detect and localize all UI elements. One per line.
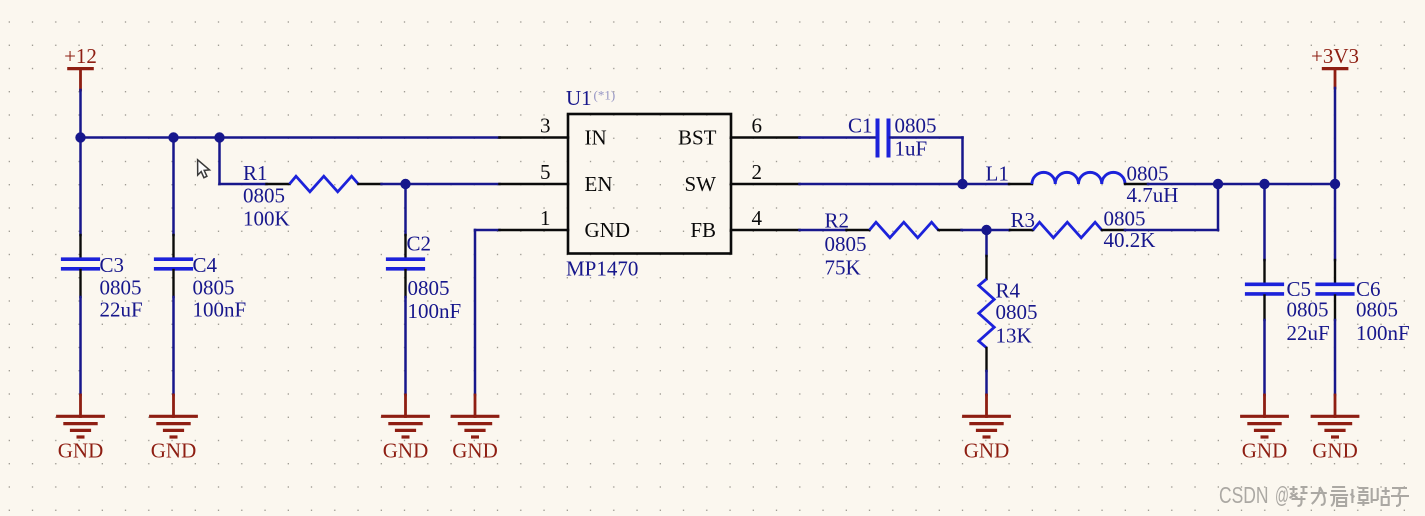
wire C5 column upper: [1263, 184, 1266, 260]
svg-text:0805: 0805: [895, 114, 937, 138]
svg-text:0805: 0805: [243, 184, 285, 208]
svg-text:U1: U1: [566, 86, 592, 110]
inductor L1 pin left: [1009, 183, 1032, 185]
wire C2 column upper: [404, 184, 407, 235]
label C6 footprint 0805: [1356, 298, 1398, 322]
power +12 net label: [64, 44, 97, 68]
junction at +12/C3: [75, 132, 85, 142]
power +3V3 bar symbol: [1322, 69, 1349, 88]
ground GND under C6: [1311, 395, 1360, 463]
capacitor C5 pin lower: [1263, 296, 1265, 321]
capacitor C2 pin upper: [404, 235, 406, 258]
ground GND under C4: [149, 395, 198, 463]
wire R1 to EN pin: [382, 183, 500, 186]
svg-text:40.2K: 40.2K: [1104, 228, 1156, 252]
pin 4 number: [752, 206, 763, 230]
svg-text:0805: 0805: [1356, 298, 1398, 322]
pin 4 FB: [731, 229, 800, 232]
ground GND under C2: [381, 395, 430, 463]
wire +3V3 stub down to rail: [1334, 88, 1337, 184]
resistor R2 pin right: [939, 229, 962, 231]
svg-text:0805: 0805: [408, 276, 450, 300]
label C3 value 22uF: [100, 298, 143, 322]
pin name IN: [585, 126, 607, 150]
wire FB pin to R2: [800, 229, 847, 232]
svg-text:2: 2: [752, 160, 763, 184]
resistor R4 pin top: [985, 256, 987, 279]
resistor R3 pin left: [1010, 229, 1033, 231]
pin 5 EN: [500, 183, 569, 186]
svg-text:BST: BST: [678, 126, 717, 150]
svg-text:75K: 75K: [825, 256, 861, 280]
svg-text:100nF: 100nF: [193, 298, 247, 322]
pin 2 number: [752, 160, 763, 184]
capacitor C6 pin lower: [1334, 296, 1336, 321]
pin 1 number: [540, 206, 551, 230]
wire SW node to L1: [963, 183, 1010, 186]
label L1 designator: [986, 162, 1009, 186]
pin 6 number: [752, 114, 763, 138]
label U1 comment MP1470: [566, 257, 638, 281]
wire SW pin to SW node: [800, 183, 963, 186]
svg-text:0805: 0805: [996, 300, 1038, 324]
capacitor C4: [154, 259, 193, 269]
svg-text:GND: GND: [383, 439, 429, 463]
op-amp U1 MP1470 body: [568, 114, 731, 254]
svg-text:5: 5: [540, 160, 551, 184]
inductor L1: [1032, 172, 1125, 184]
svg-text:+3V3: +3V3: [1311, 44, 1359, 68]
svg-text:L1: L1: [986, 162, 1009, 186]
power +3V3 net label: [1311, 44, 1359, 68]
capacitor C3 pin upper: [79, 235, 81, 258]
svg-text:R4: R4: [996, 279, 1021, 303]
capacitor C4 pin upper: [172, 235, 174, 258]
svg-text:0805: 0805: [825, 232, 867, 256]
svg-text:C4: C4: [193, 253, 218, 277]
label C4 footprint 0805: [193, 276, 235, 300]
svg-text:100nF: 100nF: [408, 299, 462, 323]
pin 1 GND: [500, 229, 569, 232]
label R3 value 40.2K: [1104, 228, 1156, 252]
label R4 footprint 0805: [996, 300, 1038, 324]
label C5 designator: [1287, 277, 1312, 301]
label R2 footprint 0805: [825, 232, 867, 256]
svg-text:CSDN: CSDN: [1219, 482, 1269, 508]
junction at C4: [168, 132, 178, 142]
svg-text:+12: +12: [64, 44, 97, 68]
label R2 value 75K: [825, 256, 861, 280]
wire R1 branch drop: [220, 138, 267, 185]
resistor R1 pin right: [359, 183, 382, 185]
label C6 value 100nF: [1356, 321, 1410, 345]
svg-text:EN: EN: [585, 172, 613, 196]
ground GND under C3: [56, 395, 105, 463]
resistor R1 pin left: [267, 183, 290, 185]
label C5 value 22uF: [1287, 321, 1330, 345]
label C2 footprint 0805: [408, 276, 450, 300]
label R4 designator: [996, 279, 1021, 303]
wire R3 to output rail: [1125, 184, 1218, 230]
label U1 annotation (*1): [594, 88, 616, 103]
pin 5 number: [540, 160, 551, 184]
junction at C5: [1259, 179, 1269, 189]
label C6 designator: [1356, 277, 1381, 301]
svg-text:GND: GND: [452, 439, 498, 463]
label R1 footprint 0805: [243, 184, 285, 208]
wire C1 to SW node: [890, 138, 963, 185]
wire L1 to output rail: [1148, 183, 1335, 186]
svg-text:4.7uH: 4.7uH: [1127, 183, 1179, 207]
label R1 designator: [243, 161, 268, 185]
svg-text:R1: R1: [243, 161, 268, 185]
pin name FB: [690, 218, 716, 242]
svg-text:0805: 0805: [1127, 162, 1169, 186]
wire R2 to FB node: [962, 229, 987, 232]
label R4 value 13K: [996, 324, 1032, 348]
pin 3 IN: [500, 136, 569, 139]
svg-text:IN: IN: [585, 126, 607, 150]
svg-text:100nF: 100nF: [1356, 321, 1410, 345]
junction at C6/+3V3: [1330, 179, 1340, 189]
capacitor C6 pin upper: [1334, 260, 1336, 283]
svg-text:6: 6: [752, 114, 763, 138]
resistor R3: [1033, 222, 1102, 238]
svg-text:(*1): (*1): [594, 88, 616, 103]
ground GND under C5: [1240, 395, 1289, 463]
wire C5 column lower to GND: [1263, 320, 1266, 395]
junction at C2: [400, 179, 410, 189]
svg-text:3: 3: [540, 114, 551, 138]
svg-text:22uF: 22uF: [100, 298, 143, 322]
pin name EN: [585, 172, 613, 196]
svg-text:R2: R2: [825, 209, 850, 233]
svg-text:C2: C2: [407, 232, 432, 256]
resistor R3 pin right: [1102, 229, 1125, 231]
svg-text:1uF: 1uF: [895, 137, 928, 161]
resistor R2: [870, 222, 939, 238]
watermark CSDN @: [1219, 482, 1289, 508]
svg-text:0805: 0805: [193, 276, 235, 300]
junction at FB node: [981, 225, 991, 235]
wire +12 stub down to top rail: [79, 90, 82, 138]
wire C6 column lower to GND: [1334, 320, 1337, 395]
capacitor C3: [61, 259, 100, 269]
svg-text:0805: 0805: [100, 276, 142, 300]
svg-text:GND: GND: [964, 439, 1010, 463]
svg-text:GND: GND: [1312, 439, 1358, 463]
wire FB node to R3: [987, 229, 1011, 232]
svg-text:4: 4: [752, 206, 763, 230]
svg-text:22uF: 22uF: [1287, 321, 1330, 345]
mouse cursor: [198, 160, 210, 178]
label C1 designator: [848, 114, 873, 138]
wire BST pin to C1: [800, 136, 877, 139]
resistor R2 pin left: [847, 229, 870, 231]
label R3 designator: [1011, 208, 1036, 232]
junction at SW node: [957, 179, 967, 189]
pin name SW: [685, 172, 717, 196]
label C4 designator: [193, 253, 218, 277]
wire C4 column lower to GND: [172, 297, 175, 395]
svg-text:GND: GND: [1242, 439, 1288, 463]
wire C3 column lower to GND: [79, 297, 82, 395]
resistor R4 pin bottom: [985, 348, 987, 371]
pin name GND: [585, 218, 631, 242]
resistor R1: [290, 176, 359, 192]
svg-text:C1: C1: [848, 114, 873, 138]
label C2 designator: [407, 232, 432, 256]
capacitor C2 pin lower: [404, 270, 406, 297]
svg-text:GND: GND: [585, 218, 631, 242]
label C2 value 100nF: [408, 299, 462, 323]
label U1 designator: [566, 86, 592, 110]
resistor R4: [979, 279, 995, 348]
svg-text:SW: SW: [685, 172, 717, 196]
pin 6 BST: [731, 136, 800, 139]
capacitor C1: [878, 119, 889, 158]
svg-text:FB: FB: [690, 218, 716, 242]
label C1 footprint 0805: [895, 114, 937, 138]
svg-text:GND: GND: [151, 439, 197, 463]
junction at L1 output: [1213, 179, 1223, 189]
svg-text:@: @: [1275, 482, 1289, 508]
wire GND pin to ground: [475, 230, 500, 395]
capacitor C5: [1245, 284, 1284, 294]
pin 3 number: [540, 114, 551, 138]
label C3 footprint 0805: [100, 276, 142, 300]
label C5 footprint 0805: [1287, 298, 1329, 322]
capacitor C2: [386, 259, 425, 269]
watermark chinese glyphs: [1290, 486, 1410, 506]
capacitor C4 pin lower: [172, 270, 174, 297]
wire C4 column upper: [172, 138, 175, 236]
wire C3 column upper: [79, 138, 82, 236]
label L1 value 4.7uH: [1127, 183, 1179, 207]
inductor L1 pin right: [1125, 183, 1148, 185]
pin name BST: [678, 126, 717, 150]
svg-text:100K: 100K: [243, 207, 290, 231]
ground GND under R4: [962, 395, 1011, 463]
svg-text:C3: C3: [100, 253, 125, 277]
label R3 footprint 0805: [1104, 207, 1146, 231]
capacitor C3 pin lower: [79, 270, 81, 297]
svg-text:0805: 0805: [1287, 298, 1329, 322]
svg-text:0805: 0805: [1104, 207, 1146, 231]
label C3 designator: [100, 253, 125, 277]
power +12 bar symbol: [67, 69, 94, 90]
wire C6 column upper: [1334, 184, 1337, 260]
capacitor C5 pin upper: [1263, 260, 1265, 283]
svg-text:1: 1: [540, 206, 551, 230]
junction at R1 branch: [214, 132, 224, 142]
svg-text:R3: R3: [1011, 208, 1036, 232]
wire FB node down to R4: [985, 230, 988, 256]
ground GND under U1 pin 1: [451, 395, 500, 463]
capacitor C6: [1315, 284, 1354, 294]
label L1 footprint 0805: [1127, 162, 1169, 186]
svg-text:MP1470: MP1470: [566, 257, 638, 281]
wire C2 column lower to GND: [404, 297, 407, 395]
svg-text:GND: GND: [58, 439, 104, 463]
svg-text:13K: 13K: [996, 324, 1032, 348]
label C1 value 1uF: [895, 137, 928, 161]
wire top rail from +12 to IN pin: [81, 136, 500, 139]
pin 2 SW: [731, 183, 800, 186]
wire R4 to GND: [985, 371, 988, 395]
label C4 value 100nF: [193, 298, 247, 322]
label R1 value 100K: [243, 207, 290, 231]
label R2 designator: [825, 209, 850, 233]
